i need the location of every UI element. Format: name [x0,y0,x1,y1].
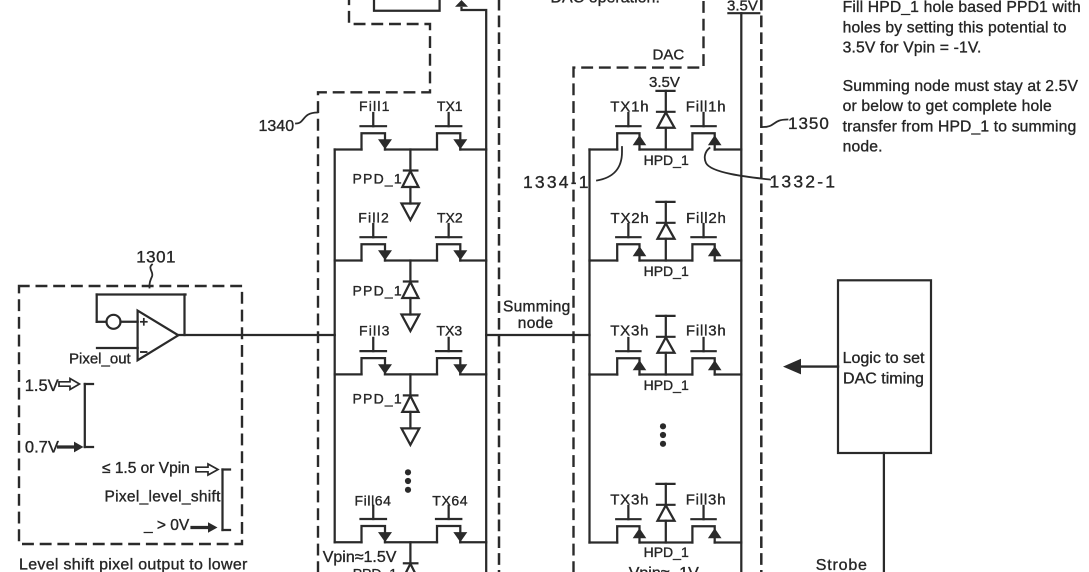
svg-text:Fill3h: Fill3h [686,323,727,340]
svg-text:1334-1: 1334-1 [523,172,591,192]
svg-text:Pixel_level_shift: Pixel_level_shift [105,489,222,506]
svg-text:1340: 1340 [259,118,295,135]
svg-text:HPD_1: HPD_1 [644,544,689,560]
svg-text:Vpin≈1.5V: Vpin≈1.5V [323,549,397,566]
svg-text:transfer from HPD_1 to summing: transfer from HPD_1 to summing [843,118,1077,135]
svg-text:Strobe: Strobe [816,557,868,572]
svg-text:≤ 1.5 or Vpin: ≤ 1.5 or Vpin [102,460,190,477]
svg-text:Level shift pixel output to lo: Level shift pixel output to lower [19,557,248,572]
svg-text:DAC timing: DAC timing [843,371,924,388]
svg-text:Summing node must stay at 2.5V: Summing node must stay at 2.5V [843,78,1079,95]
svg-text:PPD_1: PPD_1 [353,171,403,187]
svg-text:HPD_1: HPD_1 [644,152,689,168]
svg-text:TX2h: TX2h [611,210,650,227]
svg-text:TX3h: TX3h [610,492,649,509]
svg-text:1332-1: 1332-1 [770,172,838,192]
svg-text:TX64: TX64 [432,493,468,509]
svg-text:node.: node. [843,138,883,155]
svg-text:DAC: DAC [653,47,685,64]
svg-text:Fill3h: Fill3h [686,492,727,509]
svg-text:Pixel_out: Pixel_out [69,351,132,368]
svg-text:TX1h: TX1h [610,99,649,116]
svg-text:TX2: TX2 [437,210,463,226]
svg-text:Summing: Summing [503,299,571,316]
svg-text:or below to get complete hole: or below to get complete hole [843,98,1052,115]
svg-text:TX3: TX3 [437,323,463,339]
svg-text:DAC operation.: DAC operation. [551,0,660,7]
svg-text:3.5V for Vpin = -1V.: 3.5V for Vpin = -1V. [843,39,982,56]
svg-text:HPD_1: HPD_1 [644,377,689,393]
svg-text:1301: 1301 [136,248,176,267]
svg-text:3.5V: 3.5V [649,74,680,91]
svg-text:PPD_1: PPD_1 [353,283,403,299]
svg-text:Fill2: Fill2 [358,210,390,226]
svg-text:_ > 0V: _ > 0V [143,517,190,534]
svg-text:PPD_1: PPD_1 [353,391,403,407]
svg-text:Fill1: Fill1 [359,98,391,114]
svg-text:Fill1h: Fill1h [686,99,727,116]
svg-text:Fill64: Fill64 [355,493,392,509]
svg-text:0.7V: 0.7V [25,439,59,457]
svg-text:PPD_1: PPD_1 [353,566,398,572]
svg-text:TX3h: TX3h [610,323,649,340]
svg-text:HPD_1: HPD_1 [644,263,689,279]
svg-text:TX1: TX1 [437,98,463,114]
svg-text:Fill2h: Fill2h [686,210,727,227]
svg-text:3.5V: 3.5V [727,0,758,15]
svg-text:Fill3: Fill3 [359,323,391,339]
svg-text:holes by setting this potentia: holes by setting this potential to [843,19,1067,36]
svg-text:Vpin≈ -1V: Vpin≈ -1V [629,565,699,572]
svg-text:node: node [518,315,554,332]
svg-text:Fill HPD_1 hole based PPD1 wit: Fill HPD_1 hole based PPD1 with [843,0,1081,16]
svg-text:1.5V: 1.5V [25,377,59,395]
svg-text:Logic to set: Logic to set [843,350,925,367]
svg-text:1350: 1350 [788,114,830,133]
